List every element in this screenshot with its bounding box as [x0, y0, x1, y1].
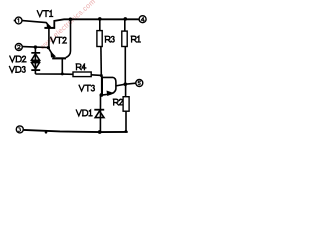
svg-text:www.electronics.com: www.electronics.com [37, 0, 97, 52]
